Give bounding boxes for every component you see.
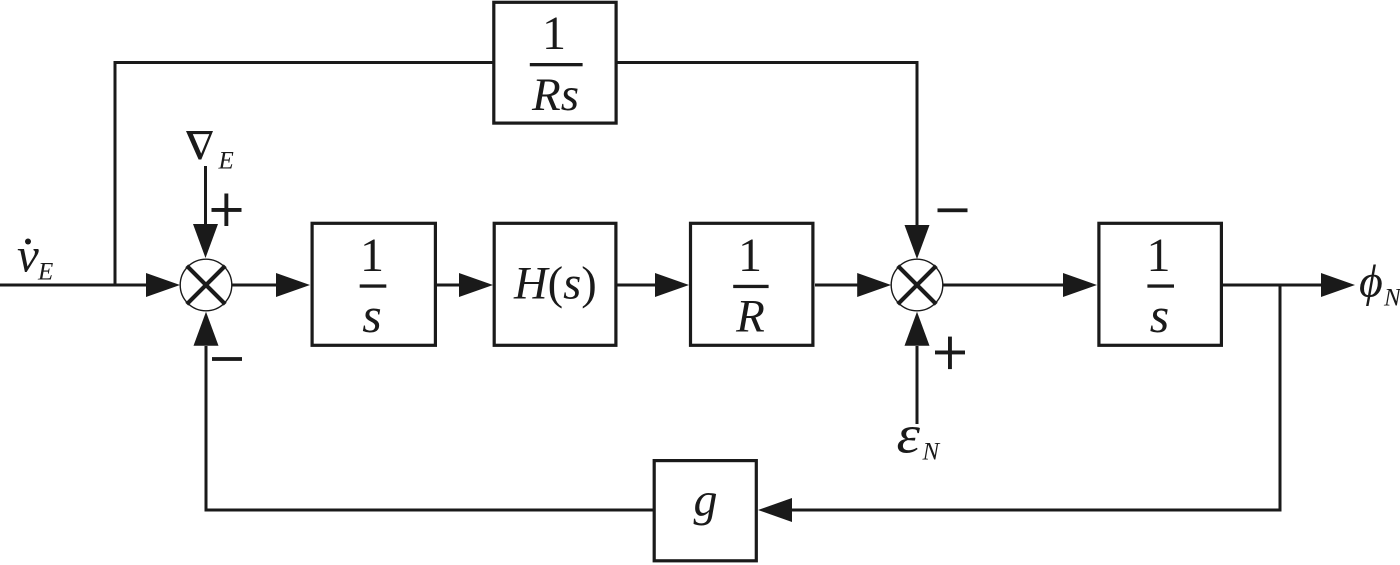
- svg-text:s: s: [362, 287, 381, 343]
- wire output horizontal: [1223, 284, 1325, 287]
- arrowhead into block 1/s: [276, 273, 310, 297]
- minus sign at S1 bottom input: [212, 357, 242, 361]
- wire branch vertical up to top path: [114, 61, 117, 287]
- summing junction S2: [891, 259, 943, 311]
- wire S2 to second 1/s: [943, 284, 1067, 287]
- svg-text:ϕ: ϕ: [1359, 256, 1383, 307]
- block 1/s first integrator: [312, 223, 435, 345]
- svg-text:N: N: [1383, 285, 1400, 312]
- plus sign at S1 top input: [212, 194, 242, 227]
- arrowhead into H(s): [459, 273, 493, 297]
- wire feedback vertical up into S1 bottom: [205, 346, 208, 512]
- node phi_N output label: [1359, 256, 1400, 312]
- wire feedback bottom left segment: [205, 509, 654, 512]
- plus sign at S2 bottom input: [935, 337, 965, 370]
- svg-text:1: 1: [542, 7, 566, 60]
- block H(s): [494, 223, 616, 345]
- arrowhead into S2 top: [905, 225, 930, 259]
- block 1/s second integrator: [1099, 223, 1222, 345]
- arrowhead into S1 top: [193, 224, 218, 258]
- wire vertical down into S2 top: [916, 61, 919, 230]
- arrowhead into S1 bottom: [194, 312, 219, 346]
- svg-text:E: E: [37, 259, 53, 286]
- svg-text:ε: ε: [897, 405, 921, 465]
- block 1/Rs: [494, 2, 616, 123]
- svg-text:Rs: Rs: [531, 69, 579, 121]
- svg-text:v: v: [17, 228, 39, 283]
- svg-text:1: 1: [360, 229, 384, 282]
- node nabla_E label: [186, 131, 234, 175]
- svg-text:1: 1: [738, 229, 762, 282]
- svg-text:R: R: [735, 291, 765, 343]
- wire top horizontal left segment: [114, 61, 493, 64]
- wire H(s) to 1/R: [618, 284, 660, 287]
- svg-text:1: 1: [1147, 229, 1171, 282]
- wire top horizontal right segment: [618, 61, 918, 64]
- minus sign at S2 top input: [938, 208, 968, 212]
- arrowhead output: [1321, 273, 1355, 297]
- node input v_E label: [17, 228, 53, 286]
- node epsilon_N label: [897, 405, 941, 466]
- block g: [654, 461, 756, 561]
- arrowhead into S2 left: [857, 273, 891, 297]
- wire epsilon_N input vertical: [916, 346, 919, 424]
- wire 1/R to S2: [815, 284, 861, 287]
- arrowhead into g right side: [758, 498, 792, 522]
- block 1/R: [691, 223, 813, 345]
- arrowhead into S1 left: [146, 273, 180, 297]
- wire S1 to block 1/s: [232, 284, 280, 287]
- wire output branch vertical down: [1279, 285, 1282, 512]
- svg-text:H(s): H(s): [513, 259, 597, 310]
- wire 1/s to H(s): [437, 284, 463, 287]
- wire input horizontal into S1: [0, 284, 152, 287]
- arrowhead into 1/R: [655, 273, 689, 297]
- svg-text:E: E: [218, 148, 234, 175]
- arrowhead into S2 bottom: [905, 312, 930, 346]
- svg-text:N: N: [922, 439, 941, 466]
- wire feedback bottom right segment: [790, 509, 1282, 512]
- wire nabla input vertical: [204, 166, 207, 227]
- svg-text:s: s: [1150, 287, 1169, 343]
- arrowhead into second 1/s: [1063, 273, 1097, 297]
- summing junction S1: [180, 259, 232, 311]
- svg-text:g: g: [694, 474, 718, 527]
